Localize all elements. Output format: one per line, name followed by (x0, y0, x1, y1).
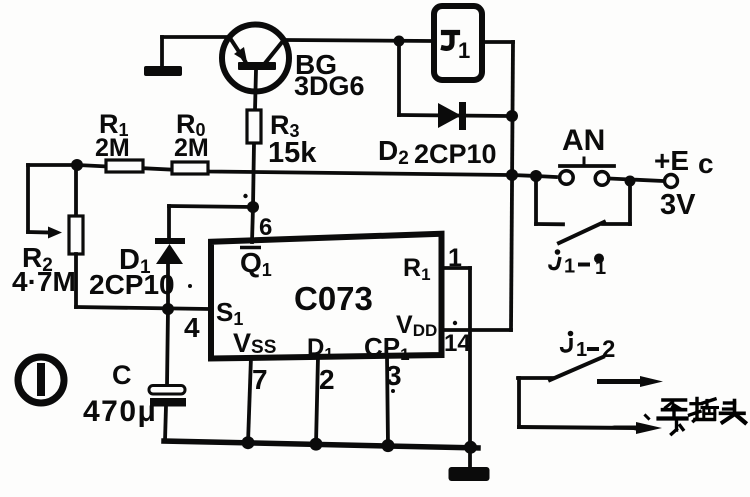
svg-text:VDD: VDD (396, 311, 437, 340)
svg-text:2CP10: 2CP10 (414, 139, 497, 169)
svg-text:+E: +E (654, 145, 689, 176)
svg-text:3DG6: 3DG6 (294, 71, 365, 101)
svg-text:2: 2 (319, 364, 335, 395)
svg-text:R1: R1 (403, 254, 431, 284)
svg-text:1: 1 (458, 38, 470, 63)
svg-text:4·7M: 4·7M (12, 266, 76, 297)
svg-text:C073: C073 (294, 280, 373, 317)
svg-text:S1: S1 (216, 297, 243, 329)
svg-text:3V: 3V (660, 189, 696, 221)
svg-text:1: 1 (448, 244, 462, 272)
svg-text:2M: 2M (95, 134, 130, 162)
svg-text:1: 1 (564, 256, 575, 278)
svg-text:AN: AN (562, 124, 605, 157)
svg-text:D1: D1 (307, 334, 333, 363)
svg-text:2M: 2M (174, 134, 209, 162)
svg-text:7: 7 (252, 364, 268, 395)
svg-text:Q1: Q1 (240, 247, 272, 280)
svg-text:D2: D2 (378, 135, 409, 169)
svg-text:c: c (698, 148, 714, 179)
svg-text:4: 4 (184, 312, 200, 343)
svg-text:2CP10: 2CP10 (89, 269, 175, 300)
svg-text:14: 14 (444, 330, 471, 357)
svg-text:2: 2 (602, 336, 615, 363)
svg-text:6: 6 (259, 214, 272, 241)
svg-text:470μ: 470μ (83, 395, 157, 428)
svg-text:3: 3 (386, 360, 402, 391)
svg-text:C: C (112, 360, 132, 390)
svg-text:15k: 15k (268, 137, 317, 169)
svg-text:VSS: VSS (233, 328, 276, 358)
svg-text:1: 1 (576, 339, 587, 361)
